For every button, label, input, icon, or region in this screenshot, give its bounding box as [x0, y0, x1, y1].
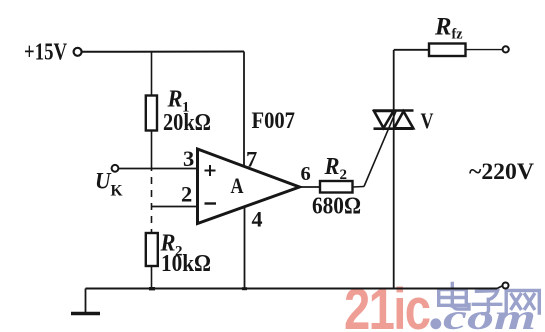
svg-text:3: 3	[183, 146, 194, 171]
resistor Rfz	[429, 44, 466, 57]
char dian	[439, 284, 469, 310]
svg-text:R: R	[324, 154, 340, 180]
wire pin2 input	[152, 206, 199, 208]
wire +15V rail	[82, 51, 245, 53]
triac V bottom bar	[374, 127, 414, 130]
wire gate diagonal	[364, 110, 397, 187]
svg-text:7: 7	[246, 146, 257, 171]
svg-text:R: R	[167, 87, 183, 113]
terminal neutral	[503, 283, 509, 289]
svg-text:21ic: 21ic	[344, 277, 430, 332]
svg-text:fz: fz	[452, 27, 463, 43]
wire R2 bottom lead	[151, 266, 153, 289]
svg-text:F007: F007	[252, 108, 296, 133]
svg-text:20kΩ: 20kΩ	[163, 110, 211, 136]
wire Rfz feed	[394, 49, 429, 51]
wire Rfz to terminal	[466, 49, 503, 51]
char wang	[506, 291, 539, 314]
svg-text:U: U	[95, 168, 111, 194]
watermark dianzi chars	[439, 284, 540, 314]
op-amp U1 (A)	[198, 149, 300, 224]
terminal +15V	[74, 48, 82, 56]
terminal UK	[112, 165, 119, 172]
svg-text:680Ω: 680Ω	[312, 194, 361, 220]
wire triac bottom lead	[393, 110, 395, 289]
resistor R2 10k	[146, 233, 158, 266]
svg-text:R: R	[434, 14, 451, 41]
watermark 21ic	[344, 277, 430, 332]
wire triac top lead	[393, 50, 395, 111]
svg-text:V: V	[421, 108, 434, 133]
junction divider-ground	[149, 287, 155, 290]
wire output pin6	[299, 186, 320, 188]
svg-text:4: 4	[252, 207, 263, 232]
wire terminal kink	[497, 286, 503, 289]
wire divider node (dashed faint)	[151, 164, 153, 233]
svg-text:10kΩ: 10kΩ	[161, 251, 211, 277]
svg-text:A: A	[231, 173, 245, 198]
wire gate lead	[353, 186, 365, 189]
svg-text:+15V: +15V	[24, 39, 67, 66]
minus input mark	[205, 202, 217, 204]
svg-text:2: 2	[340, 167, 348, 183]
terminal line output	[503, 46, 509, 52]
svg-text:K: K	[111, 182, 123, 199]
wire R1 top lead	[151, 52, 153, 97]
plus input mark	[205, 165, 216, 176]
svg-text:com: com	[443, 297, 536, 332]
resistor R1	[146, 96, 157, 131]
wire ground rail	[86, 288, 498, 290]
svg-text:~220V: ~220V	[469, 159, 534, 184]
triac right triangle	[394, 111, 413, 128]
wire R1 bottom lead	[151, 131, 153, 165]
svg-text:2: 2	[181, 181, 192, 206]
triac left triangle	[374, 111, 394, 128]
wire pin4 ground	[244, 207, 246, 289]
resistor R2 680	[320, 181, 353, 193]
triac V top bar	[373, 109, 414, 112]
watermark .com	[430, 318, 441, 329]
wire pin7 supply	[243, 52, 245, 168]
wire pin3 input	[119, 168, 199, 170]
junction pin4-ground	[242, 287, 247, 290]
svg-text:6: 6	[301, 163, 311, 185]
char zi	[473, 291, 500, 314]
ground symbol	[85, 289, 87, 314]
